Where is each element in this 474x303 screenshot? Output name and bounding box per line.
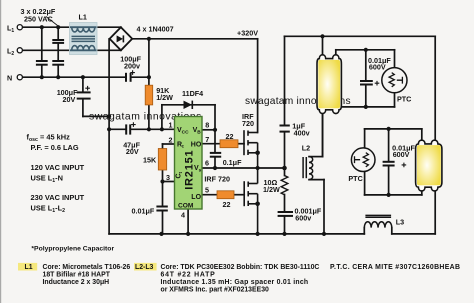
svg-text:PTC: PTC — [397, 94, 411, 103]
svg-text:15K: 15K — [143, 155, 157, 164]
svg-text:Core: Micrometals T106-26: Core: Micrometals T106-26 — [43, 264, 131, 271]
svg-text:22: 22 — [223, 200, 231, 209]
junction Q1 source/body — [255, 151, 260, 156]
wire pin7 to gate resistor — [202, 143, 220, 145]
wire cap1 column — [365, 50, 367, 81]
inductor L2 — [303, 157, 313, 180]
svg-text:0.1μF: 0.1μF — [223, 158, 242, 167]
svg-text:20V: 20V — [63, 95, 76, 104]
junction ground rail / L2 return — [322, 232, 326, 236]
junction N-line / 100uF 20V — [81, 75, 85, 79]
wire 0.1uF column — [214, 130, 216, 153]
wire 1uF column from fixture rail to midpoint — [284, 36, 286, 125]
junction Q2 source/body — [255, 202, 260, 207]
wire Vcc line pin1 — [109, 128, 126, 130]
svg-text:250 VAC: 250 VAC — [24, 15, 53, 24]
wire X-cap column B — [57, 27, 59, 40]
wire pin2 to 15K — [163, 143, 175, 145]
common-mode choke L1 box — [70, 23, 98, 55]
svg-text:600V: 600V — [393, 150, 410, 159]
capacitor 100uF 200V plates — [125, 73, 127, 82]
junction 100uF 200V / 91K — [147, 75, 151, 79]
capacitor 47uF plates — [125, 124, 127, 134]
svg-text:L1: L1 — [79, 13, 87, 22]
wire lamp2 bottom-right pin to rail — [434, 192, 436, 234]
svg-text:IR2151: IR2151 — [184, 150, 196, 190]
junction DC-minus / 47uF — [107, 127, 111, 131]
lamp tube 1 — [317, 55, 341, 114]
junction fixture2 bottom / cap — [387, 193, 391, 197]
left edge scan line — [0, 0, 1, 303]
wire fixture1 top rail — [285, 35, 436, 37]
svg-text:*Polypropylene Capacitor: *Polypropylene Capacitor — [31, 246, 114, 253]
junction fixture1 bottom / cap — [364, 105, 368, 109]
inductor L3 — [364, 215, 392, 227]
leader line — [46, 17, 58, 26]
svg-text:2: 2 — [169, 136, 173, 145]
svg-text:IRF 720: IRF 720 — [204, 174, 230, 183]
IC IR2151 — [175, 117, 203, 210]
capacitor 0.01uF 600V fixture2 plates — [383, 161, 395, 163]
svg-text:P.T.C. CERA MITE #307C1260BHEA: P.T.C. CERA MITE #307C1260BHEAB — [330, 264, 460, 271]
svg-text:L3: L3 — [396, 218, 404, 227]
junction L1-line / X-cap B — [56, 25, 60, 29]
svg-text:64T #22 HATP: 64T #22 HATP — [161, 272, 216, 279]
bridge rectifier 4x1N4007 — [110, 27, 133, 50]
svg-text:L2: L2 — [302, 143, 310, 152]
junction pin6 Vs / 0.1uF — [213, 166, 217, 170]
junction fixture2 top / cap — [387, 127, 391, 131]
wire lamp1 bottom-left pin down to L2 — [322, 114, 324, 156]
junction midpoint / 1uF / 10R — [282, 166, 287, 171]
junction ground rail / Ct cap — [159, 232, 163, 236]
lamp tube 2 — [416, 140, 442, 191]
junction ground rail / Q2 source — [256, 232, 260, 236]
svg-text:7: 7 — [205, 135, 209, 144]
wire X-cap column A — [41, 27, 43, 61]
svg-text:3: 3 — [166, 173, 170, 182]
wire pin8 stub — [202, 129, 215, 131]
svg-text:600V: 600V — [369, 63, 386, 72]
bottom notes — [18, 263, 460, 294]
svg-text:1/2W: 1/2W — [156, 93, 173, 102]
wire pin3 stub — [163, 181, 175, 183]
svg-text:4 x 1N4007: 4 x 1N4007 — [137, 25, 174, 34]
svg-text:200v: 200v — [124, 61, 140, 70]
junction L1-line / X-cap A — [40, 25, 44, 29]
svg-text:1: 1 — [169, 121, 173, 130]
svg-text:600v: 600v — [295, 213, 311, 222]
wire lamp1 top-right pin stub — [335, 50, 337, 54]
resistor 22 lower gate — [217, 191, 234, 199]
PTC 2 — [351, 148, 375, 172]
junction Vcc node / bootstrap diode — [160, 127, 164, 131]
junction fixture rail / lamp1 pin — [320, 34, 324, 38]
wire DC-minus vertical from bridge left vertex to bottom rail — [108, 39, 110, 234]
capacitor 1uF 400V plates — [280, 125, 290, 127]
wire N input line — [22, 76, 125, 78]
svg-text:5: 5 — [205, 186, 209, 195]
wire +320V rail — [132, 38, 257, 40]
wire bootstrap diode loop — [161, 105, 163, 130]
X-cap A plates — [36, 40, 395, 216]
wire cap2 column — [388, 129, 390, 162]
svg-text:120 VAC INPUT: 120 VAC INPUT — [31, 163, 85, 172]
terminal L1 — [17, 25, 22, 30]
svg-text:1/2W: 1/2W — [263, 185, 280, 194]
wire L2 top lead — [309, 156, 323, 158]
capacitor 100uF 20V plates — [77, 91, 91, 93]
junction fixture1 top / cap — [364, 48, 368, 52]
X-cap B upper plates — [52, 39, 64, 41]
wire bottom ground rail — [109, 233, 364, 235]
svg-text:Core: TDK PC30EE302 Bobbin: T: Core: TDK PC30EE302 Bobbin: TDK BE30-111… — [161, 264, 320, 271]
wire pin6 Vs line to half-bridge midpoint — [202, 167, 285, 169]
svg-text:230 VAC INPUT: 230 VAC INPUT — [31, 193, 85, 202]
junction ground rail / COM pin4 — [186, 232, 190, 236]
svg-text:4: 4 — [181, 210, 185, 219]
svg-text:0.01μF: 0.01μF — [132, 206, 155, 215]
wire L2 input line — [22, 49, 69, 51]
wire Ct cap column — [162, 182, 164, 207]
MOSFET Q1 upper IRF720 — [244, 130, 258, 168]
junction N-line / X-cap B — [56, 75, 60, 79]
junction Vcc node 91K/47uF — [147, 127, 151, 131]
resistor 10R zigzag — [281, 176, 288, 195]
wire lamp1 top-left pin — [322, 36, 324, 54]
svg-text:+320V: +320V — [237, 28, 258, 37]
svg-text:COM: COM — [178, 202, 194, 209]
svg-text:L2-L3: L2-L3 — [135, 264, 154, 271]
junction pin3 Ct node — [160, 179, 164, 183]
svg-text:22: 22 — [226, 132, 234, 141]
svg-text:L1: L1 — [25, 264, 33, 271]
wire L3 left lead — [363, 228, 365, 234]
svg-text:18T Bifilar #18 HAPT: 18T Bifilar #18 HAPT — [43, 272, 111, 279]
svg-text:N: N — [7, 74, 12, 83]
MOSFET Q2 lower IRF720 — [244, 168, 257, 234]
junction ground rail / 0.001uF — [282, 232, 286, 236]
svg-text:11DF4: 11DF4 — [182, 89, 203, 98]
svg-text:USE L1-L2: USE L1-L2 — [31, 203, 66, 214]
wire N line to 91K node — [131, 76, 149, 78]
junction half-bridge midpoint — [256, 166, 260, 170]
left notes block — [27, 133, 85, 214]
resistor 91K — [145, 85, 153, 105]
svg-text:LO: LO — [191, 194, 201, 201]
wire fixture1 bottom line — [341, 106, 395, 108]
svg-text:HO: HO — [191, 141, 202, 148]
wire L3 right lead — [391, 228, 393, 234]
plus marks — [85, 70, 406, 167]
wire pin5 to gate resistor — [202, 194, 217, 196]
svg-text:6: 6 — [205, 159, 209, 168]
svg-text:400v: 400v — [294, 129, 310, 138]
wire 100uF20V branch — [82, 77, 84, 92]
wire fixture2 top line — [365, 128, 422, 130]
svg-text:PTC: PTC — [348, 174, 362, 183]
capacitor 0.01uF Ct plates — [156, 206, 167, 208]
wire fixture2 bottom line — [365, 194, 422, 196]
wire fixture1 top line — [336, 49, 395, 51]
svg-text:8: 8 — [205, 121, 209, 130]
svg-text:P.F. = 0.6 LAG: P.F. = 0.6 LAG — [31, 143, 79, 152]
capacitor 0.001uF 600V plates — [278, 211, 293, 213]
wire +320V node column through 91K — [148, 39, 150, 85]
wire 15K to pin3 node — [162, 170, 164, 182]
junction pin8 VB node — [213, 128, 217, 132]
wire 10R branch top — [284, 168, 286, 176]
resistor 22 upper gate — [220, 140, 238, 148]
wire L2 bottom lead — [309, 179, 324, 181]
wire L1 input line — [22, 26, 69, 28]
junction DC-minus / 100uF 20V return — [107, 114, 111, 118]
junction +320V rail / doubler cap branch — [147, 37, 151, 41]
svg-text:USE L1-N: USE L1-N — [31, 173, 63, 184]
terminal N — [17, 75, 22, 80]
resistor 15K — [158, 149, 166, 171]
svg-text:20V: 20V — [126, 147, 139, 156]
svg-text:720: 720 — [242, 119, 254, 128]
junction N-line / X-cap A — [40, 75, 44, 79]
wire pin4 COM — [187, 209, 189, 234]
svg-text:Inductance 1.35 mH: Gap spacer: Inductance 1.35 mH: Gap spacer 0.01 inch — [161, 279, 309, 286]
capacitor 0.01uF 600V fixture1 plates — [360, 80, 373, 82]
diode 11DF4 — [184, 101, 193, 109]
wire 10R to 0.001uF — [284, 195, 286, 212]
svg-text:or XFMRS Inc. part #XF0213EE30: or XFMRS Inc. part #XF0213EE30 — [161, 287, 270, 294]
terminal L2 — [17, 48, 22, 53]
svg-text:Inductance 2 x 30μH: Inductance 2 x 30μH — [43, 279, 110, 286]
PTC 1 — [382, 68, 407, 93]
X-cap B lower plates — [52, 60, 64, 62]
capacitor 0.1uF plates — [210, 152, 221, 154]
